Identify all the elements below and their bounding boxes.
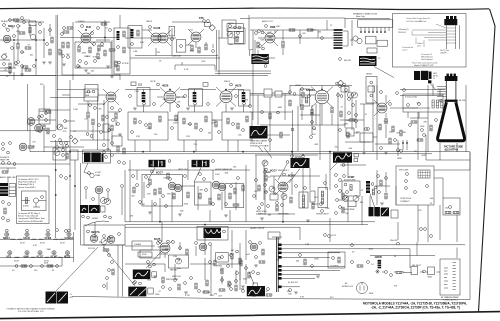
tuner caps xyxy=(17,61,20,64)
waveform photo G xyxy=(250,126,268,139)
pointer xyxy=(146,253,160,268)
sync can J2 xyxy=(192,160,210,167)
video coupling parts xyxy=(261,111,264,114)
parts left of convergence box xyxy=(377,175,380,178)
wires vert bottom xyxy=(125,230,246,282)
svg-text:1ST IF: 1ST IF xyxy=(150,81,156,83)
svg-text:6.8K: 6.8K xyxy=(344,123,349,125)
heater row small labels xyxy=(5,229,8,232)
svg-text:RF AGC: RF AGC xyxy=(1,20,9,23)
heater row 2 xyxy=(8,251,12,255)
svg-text:2.2M: 2.2M xyxy=(65,256,70,258)
AGC keyer parts xyxy=(147,185,150,188)
sync can J1 xyxy=(149,160,166,167)
svg-text:4 7W: 4 7W xyxy=(185,295,190,297)
svg-text:120K: 120K xyxy=(162,99,167,101)
svg-text:AUDIO TAKE OFF: AUDIO TAKE OFF xyxy=(0,176,17,179)
IF stage 2 lower box xyxy=(178,112,212,140)
svg-text:Main Only: Main Only xyxy=(356,16,366,18)
audio output transformer T2 xyxy=(334,29,343,49)
wires vert xyxy=(255,152,348,225)
IF transformer T3 box xyxy=(137,88,150,107)
svg-text:466 1W: 466 1W xyxy=(344,60,351,62)
tuner shield vertical xyxy=(56,15,58,130)
wires IF top xyxy=(125,89,244,112)
schematic inner bottom frame xyxy=(72,297,470,300)
IF stage labels xyxy=(157,83,160,86)
on-off switch xyxy=(351,244,354,247)
antenna diamond xyxy=(1,54,7,60)
vert output tube V14 xyxy=(377,103,387,113)
svg-text:3MEG: 3MEG xyxy=(258,214,264,216)
RF AGC label xyxy=(3,24,6,27)
mixer tube V2 xyxy=(81,33,91,43)
pointer long xyxy=(133,282,136,285)
svg-text:1B3GT: 1B3GT xyxy=(366,74,373,76)
left mid cluster xyxy=(39,109,50,124)
vertical pair x70 into sync band xyxy=(0,160,75,232)
HV rect box 1B3GT xyxy=(366,77,377,104)
svg-text:470K: 470K xyxy=(142,254,147,256)
width/horiz cans photo Q xyxy=(80,205,88,213)
wires sync xyxy=(128,160,250,222)
wires flyback xyxy=(400,83,445,95)
svg-text:4BQ7A: 4BQ7A xyxy=(91,230,100,234)
svg-text:6.8K: 6.8K xyxy=(133,51,138,53)
svg-text:VERT MULT: VERT MULT xyxy=(278,170,289,172)
svg-text:2.2M: 2.2M xyxy=(305,244,310,246)
IF strip terminals xyxy=(129,95,132,98)
svg-text:To Pin For Other/ABB Omit: To Pin For Other/ABB Omit xyxy=(406,20,427,23)
svg-text:TAKE OFF: TAKE OFF xyxy=(0,159,10,162)
sync sep box xyxy=(195,182,212,205)
sound IF input box xyxy=(128,26,142,49)
small box row bottom mid xyxy=(268,232,280,239)
wires sound section xyxy=(125,22,220,58)
svg-text:AUDIO OUT: AUDIO OUT xyxy=(262,20,273,23)
svg-text:HORIZ OUTPUT: HORIZ OUTPUT xyxy=(250,228,265,230)
svg-text:2.2M: 2.2M xyxy=(100,46,105,48)
speaker xyxy=(353,36,358,41)
AGC keyer box xyxy=(142,175,183,207)
page right border xyxy=(479,9,496,312)
svg-text:Drive: Drive xyxy=(417,45,421,48)
inset tube neck xyxy=(446,25,459,49)
CRT band terminal xyxy=(439,99,442,102)
svg-text:330K: 330K xyxy=(369,248,374,250)
svg-text:1.5M: 1.5M xyxy=(134,91,139,93)
svg-text:24BV: 24BV xyxy=(397,158,402,160)
tube location chart box xyxy=(440,259,460,295)
svg-text:4.5 MC: 4.5 MC xyxy=(95,172,102,174)
right small box xyxy=(443,198,460,215)
svg-text:1.5MEG: 1.5MEG xyxy=(134,244,142,246)
drive pots xyxy=(343,196,349,202)
svg-text:To Junction Of: To Junction Of xyxy=(421,53,432,56)
svg-text:© HOWARD W. SAMS PHOTOFACT STA: © HOWARD W. SAMS PHOTOFACT STANDARD NOTA… xyxy=(6,308,55,311)
convergence assembly box xyxy=(396,166,434,205)
flyback transformer photo xyxy=(414,71,420,80)
heater wire 1 + coils xyxy=(0,239,74,241)
flyback can photos xyxy=(369,207,374,216)
svg-text:4.5MC: 4.5MC xyxy=(23,206,29,208)
ratio det cluster xyxy=(228,28,245,44)
wires conv xyxy=(396,152,470,242)
svg-text:111: 111 xyxy=(138,83,143,87)
svg-text:SYNCED 1/2 V RATE: SYNCED 1/2 V RATE xyxy=(250,145,269,148)
svg-text:150K: 150K xyxy=(155,294,160,296)
svg-text:6T8: 6T8 xyxy=(7,255,12,259)
svg-text:Ⓐ21ATP4A: Ⓐ21ATP4A xyxy=(445,147,459,151)
vert osc tube V13 xyxy=(278,182,288,192)
sound take-off transformer photo A xyxy=(251,54,268,64)
audio output can photo xyxy=(359,56,377,66)
delay line box xyxy=(85,85,98,98)
svg-text:220K: 220K xyxy=(86,56,91,58)
frame under CRT xyxy=(398,135,470,160)
volume control cluster xyxy=(227,24,243,32)
svg-text:8CM7: 8CM7 xyxy=(288,174,295,178)
svg-text:47uH: 47uH xyxy=(40,243,45,245)
svg-text:AT TRANSFORMER: AT TRANSFORMER xyxy=(441,296,459,299)
svg-text:8CM7: 8CM7 xyxy=(348,175,355,179)
second pointer to tube xyxy=(289,169,300,184)
4.5MC trap label xyxy=(88,172,91,175)
top-left cluster 140-175 xyxy=(2,143,5,146)
video amp bias parts xyxy=(111,107,114,110)
svg-text:U/BQP8: U/BQP8 xyxy=(440,53,446,55)
svg-text:SPEAKER CONNECTIONS: SPEAKER CONNECTIONS xyxy=(353,13,378,16)
dual triode V12 xyxy=(212,181,220,189)
TP box labels xyxy=(131,82,136,86)
CRT neck cap xyxy=(445,76,458,81)
svg-text:Models Y1 ABB/LPT LWP: Models Y1 ABB/LPT LWP xyxy=(414,64,434,67)
long verticals video band xyxy=(258,92,364,151)
svg-text:220K: 220K xyxy=(401,132,406,134)
svg-text:4 PCT: 4 PCT xyxy=(331,235,337,237)
note inner diagram xyxy=(22,191,47,211)
terminal board xyxy=(418,170,430,178)
svg-text:220K: 220K xyxy=(172,56,177,58)
IF transformer T4 box xyxy=(189,89,203,106)
svg-text:PIN BLUE: PIN BLUE xyxy=(398,32,407,34)
wires tuner xyxy=(0,22,44,80)
svg-text:330K: 330K xyxy=(46,249,51,251)
svg-text:FOCUS: FOCUS xyxy=(88,248,95,250)
svg-text:6CG7: 6CG7 xyxy=(270,169,277,173)
peaking can photo xyxy=(83,150,111,163)
svg-text:1.5M: 1.5M xyxy=(140,204,145,206)
svg-text:6AW8A: 6AW8A xyxy=(306,88,315,92)
wires right mid xyxy=(375,85,466,160)
svg-text:Service Tuner 4/20LL: Service Tuner 4/20LL xyxy=(18,186,37,189)
vert out can L xyxy=(291,158,310,168)
coupling box xyxy=(346,128,354,136)
tube chart box xyxy=(84,225,125,245)
1st IF input box xyxy=(114,28,130,74)
speaker connections box xyxy=(358,20,393,27)
wires video amp xyxy=(44,80,110,160)
svg-text:YOKE PLUG: YOKE PLUG xyxy=(400,198,412,200)
mid cluster 50-75,140-165 xyxy=(56,146,59,149)
IF bus lines xyxy=(30,152,470,154)
svg-text:1.5M: 1.5M xyxy=(173,123,178,125)
CRT neck pin lines xyxy=(437,87,446,97)
yoke photo M2 xyxy=(128,287,146,297)
svg-text:1.5M: 1.5M xyxy=(173,256,178,258)
vert osc parts xyxy=(255,179,258,182)
CRT funnel xyxy=(438,102,465,141)
cable tabs xyxy=(278,244,282,247)
svg-text:4BZ6: 4BZ6 xyxy=(235,84,242,88)
resistor R1 xyxy=(9,67,11,73)
X pointer lines xyxy=(56,247,135,291)
focus column parts xyxy=(108,254,111,257)
pointer lines from cans xyxy=(148,168,201,183)
wires audio xyxy=(250,18,345,60)
sound trap tube V16 xyxy=(95,186,103,194)
right column parts 100-130,140-158 xyxy=(103,144,106,147)
svg-text:6W6: 6W6 xyxy=(24,255,30,259)
bus junction dots xyxy=(142,151,144,153)
svg-text:CKT BKR: CKT BKR xyxy=(330,266,339,268)
video amp tube V9 xyxy=(106,92,116,102)
svg-text:47uH: 47uH xyxy=(60,243,65,245)
vert output transformer photo H xyxy=(333,152,352,162)
osc label xyxy=(81,25,84,28)
video out tube V10 xyxy=(315,90,329,104)
svg-text:6T8: 6T8 xyxy=(199,16,204,20)
svg-text:PIN CUSH: PIN CUSH xyxy=(399,169,409,171)
IF transformer T5 box xyxy=(239,90,250,106)
svg-text:WIDTH CONT: WIDTH CONT xyxy=(166,279,179,281)
svg-text:1.5M: 1.5M xyxy=(228,44,233,46)
connector comb xyxy=(361,27,389,31)
inset tube base cap xyxy=(446,16,449,19)
left vert osc column xyxy=(265,168,270,215)
focus pot xyxy=(101,239,107,245)
svg-text:1.5M: 1.5M xyxy=(73,109,78,111)
vert out can M1 xyxy=(133,270,151,280)
svg-text:6AU8: 6AU8 xyxy=(154,26,161,30)
ion trap photo N1 xyxy=(46,292,57,304)
small tube cluster top left xyxy=(250,243,258,251)
filter row xyxy=(378,260,382,269)
svg-text:330K: 330K xyxy=(187,124,192,126)
svg-text:HORIZ PHASE DET: HORIZ PHASE DET xyxy=(215,168,233,171)
svg-text:ON-OFF: ON-OFF xyxy=(390,240,398,242)
sound IF tube V4 (dual) xyxy=(151,33,161,43)
svg-text:Picture Tube Connections Used: Picture Tube Connections Used In xyxy=(412,61,438,64)
pointer to cans xyxy=(340,160,378,225)
tuner input parts xyxy=(9,19,12,22)
svg-text:330K: 330K xyxy=(427,277,432,279)
caps at left xyxy=(62,42,64,48)
svg-text:SEL RECT: SEL RECT xyxy=(412,265,422,267)
svg-text:VERT LIN: VERT LIN xyxy=(172,276,181,278)
stage labels xyxy=(151,170,154,173)
svg-text:LINE: LINE xyxy=(85,95,90,97)
svg-text:CONNECT: CONNECT xyxy=(400,201,410,203)
pointer from note to waveform can xyxy=(264,148,272,159)
svg-text:220K: 220K xyxy=(48,265,53,267)
svg-text:330K: 330K xyxy=(354,132,359,134)
svg-text:HORIZ: HORIZ xyxy=(216,266,223,268)
svg-text:DELAY: DELAY xyxy=(85,91,92,94)
svg-text:47uH: 47uH xyxy=(14,260,19,262)
cap C12 xyxy=(63,31,69,33)
svg-text:4B TWI: 4B TWI xyxy=(459,100,466,102)
pointer to can xyxy=(374,67,394,78)
svg-text:INTERLOCK: INTERLOCK xyxy=(342,286,354,288)
ion trap photo N2 xyxy=(57,292,68,304)
svg-text:220K: 220K xyxy=(314,258,319,260)
width coil photo xyxy=(381,208,389,217)
IF amp tube V7 xyxy=(164,91,176,103)
cable swoop xyxy=(85,221,109,226)
HV coil xyxy=(366,181,370,193)
vert out tube V15 xyxy=(160,243,170,253)
cable fan wires xyxy=(272,237,465,287)
left edge parts 198-228 xyxy=(2,201,5,204)
RF amp tube V1 xyxy=(3,35,11,43)
vert mult label xyxy=(283,173,286,176)
resistor cluster left of HV box xyxy=(338,80,344,86)
svg-text:330K: 330K xyxy=(369,293,374,295)
horiz osc label xyxy=(343,175,346,178)
inset wiring fan xyxy=(412,24,446,40)
sound det tube V5 xyxy=(191,32,201,42)
inset box xyxy=(393,14,467,68)
IF amp tube V8 xyxy=(220,91,232,103)
power filter parts xyxy=(299,254,302,257)
svg-text:Component Y20EB Wires, Term: Component Y20EB Wires, Term xyxy=(18,217,45,220)
sync bus lines xyxy=(125,222,375,227)
svg-text:150K: 150K xyxy=(420,126,425,128)
horiz osc box xyxy=(342,181,360,196)
CRT neck xyxy=(446,81,456,101)
mixer grid coil xyxy=(30,34,35,39)
svg-text:220K: 220K xyxy=(82,53,87,55)
svg-text:TRAP: TRAP xyxy=(95,174,101,177)
wires mixer xyxy=(60,15,120,80)
label circles under cans xyxy=(82,215,85,218)
svg-text:SND IF: SND IF xyxy=(146,21,153,23)
audio out tube V6 xyxy=(265,33,275,43)
fuse box xyxy=(328,252,345,268)
svg-text:R86 Grid/Lower: R86 Grid/Lower xyxy=(421,56,433,59)
wires video out xyxy=(260,85,374,130)
page bottom border xyxy=(0,312,500,319)
svg-text:47uH: 47uH xyxy=(20,243,25,245)
svg-text:1.5M: 1.5M xyxy=(325,208,330,210)
svg-text:6CG7: 6CG7 xyxy=(37,255,44,259)
svg-text:6CG7: 6CG7 xyxy=(156,171,163,175)
svg-text:220K: 220K xyxy=(44,263,49,265)
height control box xyxy=(168,255,188,268)
svg-text:47C: 47C xyxy=(330,297,334,299)
chassis cable xyxy=(277,237,279,292)
svg-text:4BZ6: 4BZ6 xyxy=(162,84,169,88)
left edge parts 60-115 xyxy=(3,63,6,66)
svg-text:VOLUME: VOLUME xyxy=(231,38,240,40)
svg-text:4 Vertical Yoke: 4 Vertical Yoke xyxy=(405,96,418,99)
svg-text:4 PIX IF: 4 PIX IF xyxy=(122,63,130,65)
grid box xyxy=(140,250,160,258)
wires IF lower xyxy=(135,120,238,152)
svg-text:To Junction Of R1 C12 4: To Junction Of R1 C12 4 xyxy=(18,178,39,181)
damper tube V17 xyxy=(199,243,207,251)
svg-text:Lead Out Use Of R/B Dial KB: Lead Out Use Of R/B Dial KB xyxy=(18,220,43,223)
svg-text:HORIZ: HORIZ xyxy=(92,218,99,220)
IF stage 1 lower box xyxy=(128,112,168,140)
svg-text:-2A, -2, 21T44A, 21T30CH, 21T3: -2A, -2, 21T44A, 21T30CH, 21T30P (Ch. TS… xyxy=(371,306,460,310)
svg-text:To Auxiliary(?) B+ 4: To Auxiliary(?) B+ 4 xyxy=(18,183,35,186)
svg-text:Wires From Y20LL(?): Wires From Y20LL(?) xyxy=(18,181,36,184)
svg-text:FOLLOW ON WITH ALL VOL: FOLLOW ON WITH ALL VOL xyxy=(18,310,45,313)
svg-text:6.8K: 6.8K xyxy=(282,183,287,185)
svg-text:6CZ5: 6CZ5 xyxy=(154,237,161,241)
1st video box xyxy=(84,89,98,101)
svg-text:Pict(?) Tube: Pict(?) Tube xyxy=(440,49,449,52)
svg-text:HORIZ DISCH: HORIZ DISCH xyxy=(316,214,329,216)
B+ bus under top band xyxy=(0,62,268,76)
heater row 1 xyxy=(5,232,9,236)
heater wire 2 + coils xyxy=(0,232,74,262)
4.5MC trap pointer xyxy=(84,163,90,175)
inner frame right vertical xyxy=(469,152,471,300)
long vertical wire x=55.7 xyxy=(55,140,57,238)
svg-text:Service Tuner, Y20LL(?): Service Tuner, Y20LL(?) xyxy=(18,215,38,218)
1.5meg box top-left bottom band xyxy=(132,241,152,250)
vert stage boxes xyxy=(299,192,308,208)
svg-text:330K: 330K xyxy=(243,279,248,281)
CRT base band xyxy=(445,100,458,102)
tuner bottom wire xyxy=(0,76,56,131)
svg-text:8CM7: 8CM7 xyxy=(51,255,58,259)
svg-text:330K: 330K xyxy=(210,295,215,297)
horiz lin box xyxy=(216,253,229,263)
svg-text:To Junction R7 B1, Note: 4: To Junction R7 B1, Note: 4 xyxy=(18,212,41,215)
video out left cluster xyxy=(264,89,272,97)
service note box xyxy=(17,176,50,224)
misc long wires xyxy=(125,30,373,242)
damper can O xyxy=(247,286,265,296)
svg-text:220K: 220K xyxy=(184,204,189,206)
svg-text:1.5M: 1.5M xyxy=(215,174,220,176)
svg-text:47C: 47C xyxy=(70,297,74,299)
component row 3 xyxy=(15,265,18,268)
vert hold pots xyxy=(269,186,275,192)
dual triode V11 xyxy=(168,182,176,190)
svg-text:VERT PEAK: VERT PEAK xyxy=(278,213,289,216)
extra horizontals video band xyxy=(240,19,390,143)
svg-text:Vert Distributed: Vert Distributed xyxy=(421,58,432,61)
contrast pot xyxy=(262,160,268,166)
tuner enrichment xyxy=(7,29,10,32)
svg-text:330K: 330K xyxy=(39,111,44,113)
IF stage 3 lower box xyxy=(222,112,252,140)
svg-text:Comm: Comm xyxy=(402,50,408,52)
osc sub-box xyxy=(75,42,111,68)
diamond test point xyxy=(72,138,78,144)
small parts row xyxy=(174,279,177,282)
video det components xyxy=(38,116,41,119)
svg-text:2ND IF: 2ND IF xyxy=(224,81,231,83)
right tubes xyxy=(218,257,221,260)
section border xyxy=(81,163,126,245)
sync band enrichment xyxy=(132,175,135,178)
